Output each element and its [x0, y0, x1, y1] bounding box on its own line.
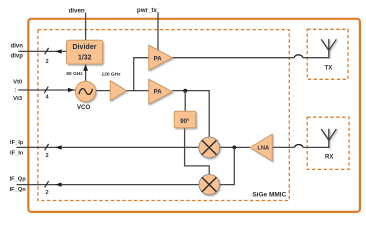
svg-text:Divider: Divider — [72, 44, 96, 51]
mixer Q — [199, 174, 219, 194]
frequency doubler buffer amp — [110, 81, 126, 101]
TX antenna — [321, 39, 336, 58]
svg-text:2: 2 — [45, 190, 48, 196]
bus slash IF_I — [45, 144, 49, 150]
svg-text:120 GHz: 120 GHz — [102, 72, 122, 78]
svg-text:PA: PA — [154, 89, 163, 96]
PA (LO driver amplifier) — [149, 79, 173, 104]
svg-text:Vt3: Vt3 — [13, 96, 23, 102]
TX antenna module boundary (dashed) — [307, 29, 348, 79]
bus slash Vt — [44, 87, 48, 93]
svg-text:Vt0: Vt0 — [13, 79, 22, 85]
sine symbol — [79, 89, 93, 95]
wire pwr_tx input — [157, 12, 159, 50]
wire PA2 output to mixer I LO port — [172, 89, 209, 137]
svg-text:SiGe MMIC: SiGe MMIC — [252, 191, 286, 198]
divider block 1/32 — [67, 40, 103, 64]
wire IF_I output — [17, 144, 199, 150]
junction dot RF split — [232, 146, 236, 150]
wire RF branch down to mixer Q — [219, 147, 234, 184]
VCO — [75, 81, 95, 101]
RX antenna module boundary (dashed) — [307, 117, 349, 169]
svg-text:IF_Qn: IF_Qn — [10, 187, 27, 193]
wire VCO to divider (60 GHz) — [83, 64, 88, 81]
arrowhead IF_I (points left) — [55, 145, 61, 149]
LNA — [250, 134, 272, 161]
svg-text:IF_Ip: IF_Ip — [10, 140, 24, 146]
svg-text:IF_Qp: IF_Qp — [10, 177, 27, 183]
SiGe MMIC chip boundary (dashed) — [38, 30, 289, 201]
svg-text:1/32: 1/32 — [78, 55, 92, 62]
junction dot LO split — [183, 89, 187, 93]
wire buffer output / LO trunk — [126, 58, 149, 91]
wire IF_Q output — [17, 181, 200, 187]
wire Vt0..Vt3 tuning bus — [18, 87, 76, 93]
bond wire hop TX — [294, 55, 303, 58]
wire RX antenna to LNA input — [272, 145, 329, 148]
wire VCO to doubler buffer — [96, 90, 111, 92]
PA (TX power amplifier) — [149, 45, 173, 70]
arrowhead divn/divp (points left) — [55, 49, 61, 53]
svg-text::: : — [15, 88, 17, 94]
svg-text:90°: 90° — [180, 119, 190, 125]
svg-text:IF_In: IF_In — [10, 151, 24, 157]
wire branch up to TX PA — [134, 58, 149, 91]
svg-text:diven: diven — [69, 8, 85, 15]
svg-text:2: 2 — [45, 59, 48, 65]
wire 90 deg shifter to mixer Q LO port — [185, 128, 210, 175]
90 degree phase shifter — [174, 111, 196, 128]
wire PA1 output to TX antenna — [172, 55, 328, 58]
svg-text:VCO: VCO — [77, 104, 90, 111]
arrowhead IF_Q (points left) — [55, 182, 61, 186]
bus slash IF_Q — [45, 181, 49, 187]
svg-text:divn: divn — [11, 44, 24, 50]
bond wire hop RX — [295, 145, 304, 148]
svg-text:2: 2 — [45, 153, 48, 159]
arrowhead into divider (points up) — [83, 64, 88, 70]
svg-text:PA: PA — [154, 56, 163, 63]
wire LNA output to mixers RF ports — [219, 146, 250, 185]
arrowhead Vt bus (points right into VCO) — [68, 88, 74, 92]
wire LO to 90 deg shifter — [184, 91, 186, 112]
svg-text:RX: RX — [325, 155, 333, 161]
svg-text:divp: divp — [11, 53, 24, 59]
RX antenna — [321, 129, 336, 148]
svg-text:LNA: LNA — [257, 146, 270, 152]
bus slash divn/divp — [45, 48, 49, 54]
wire diven input — [85, 13, 87, 41]
outer board border — [28, 19, 360, 212]
wire divn/divp output bus — [18, 48, 66, 54]
svg-text:4: 4 — [45, 95, 49, 101]
svg-text:TX: TX — [325, 66, 333, 72]
mixer I — [199, 137, 220, 158]
svg-text:60 GHz: 60 GHz — [66, 71, 83, 77]
svg-text:pwr_tx: pwr_tx — [137, 7, 158, 14]
